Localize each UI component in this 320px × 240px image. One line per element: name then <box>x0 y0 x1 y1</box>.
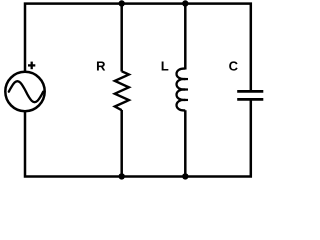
inductor cusp tick 3 <box>184 99 188 101</box>
capacitor C1 gap (erase right wire between plates) <box>249 91 254 99</box>
inductor L1 coil <box>177 69 186 111</box>
label R <box>97 62 105 71</box>
wire outer loop (top rail, bottom rail, left and right side wires) <box>25 4 251 177</box>
ac source polarity plus sign <box>28 64 35 66</box>
ac source sine wave <box>9 81 43 102</box>
node junction dot top L <box>182 0 188 6</box>
label C <box>229 61 238 70</box>
ac source V1 circle <box>5 72 44 111</box>
inductor cusp tick 2 <box>184 88 188 90</box>
capacitor C1 top plate <box>237 90 263 93</box>
wire R branch bottom segment <box>120 110 123 177</box>
wire R branch top segment <box>120 4 123 72</box>
resistor R1 zigzag <box>115 71 129 110</box>
node junction dot top R <box>119 0 125 6</box>
wire L branch top segment <box>184 4 187 70</box>
node junction dot bottom L <box>182 173 188 179</box>
label L <box>162 62 169 71</box>
inductor cusp tick 1 <box>184 78 188 80</box>
node junction dot bottom R <box>119 173 125 179</box>
capacitor C1 bottom plate <box>237 98 263 101</box>
wire L branch bottom segment <box>184 110 187 176</box>
